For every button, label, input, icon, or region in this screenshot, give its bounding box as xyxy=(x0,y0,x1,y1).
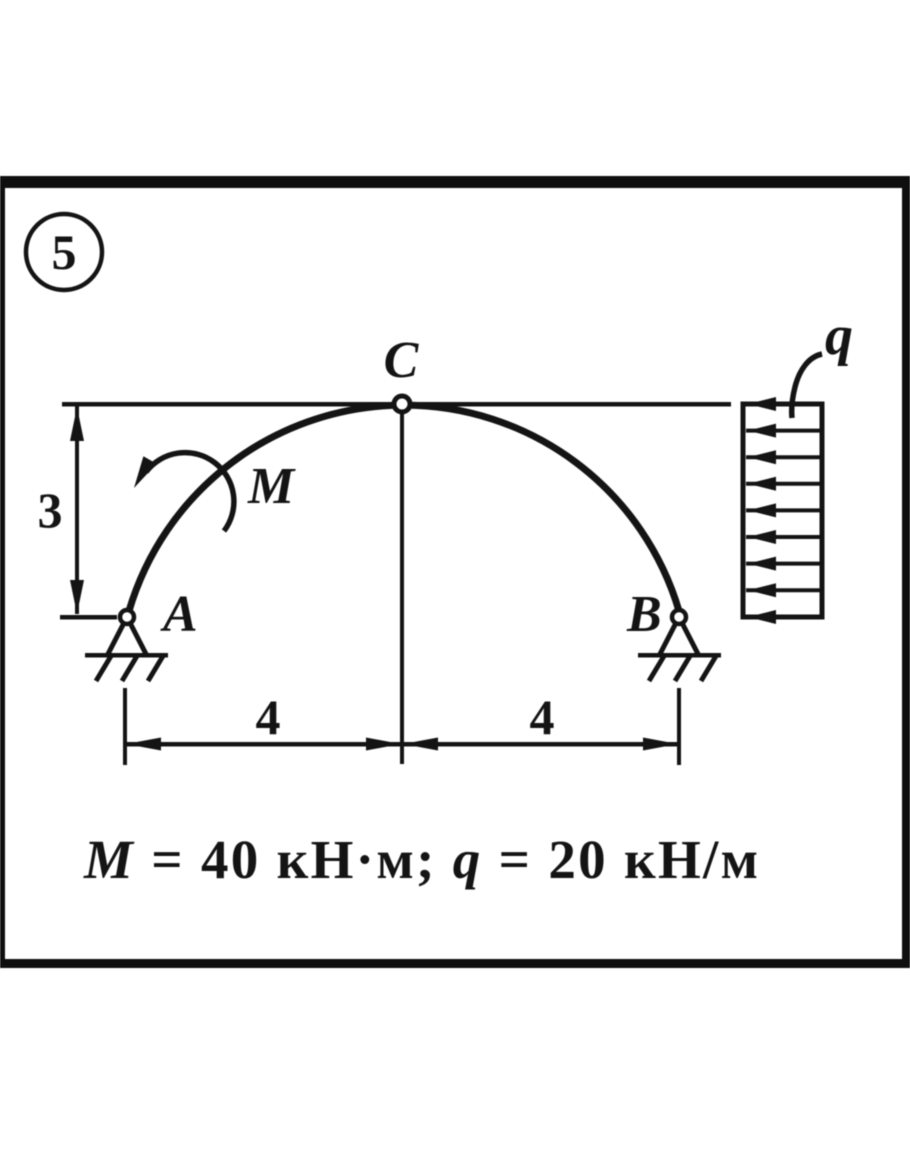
dim arrow center-to-right xyxy=(403,738,438,751)
frame border right xyxy=(902,176,910,968)
frame border bottom xyxy=(0,959,910,968)
load dividing lines and arrows xyxy=(746,397,820,624)
support A pin circle xyxy=(120,610,134,624)
distributed load q box xyxy=(743,404,822,617)
dim arrow right-to-center xyxy=(366,738,401,751)
q leader curve xyxy=(792,354,822,418)
svg-text:M = 40 кН·м; q = 20 кН/м: M = 40 кН·м; q = 20 кН/м xyxy=(83,829,760,890)
support B hatching xyxy=(649,656,716,681)
svg-text:M: M xyxy=(247,458,296,515)
top horizontal line at crown level xyxy=(62,402,731,407)
extension line B xyxy=(677,688,681,765)
svg-text:5: 5 xyxy=(52,224,77,280)
dim3 arrow down xyxy=(70,580,84,614)
short line at support level left xyxy=(60,615,117,620)
hinge C xyxy=(394,396,410,412)
moment arc M xyxy=(146,453,234,531)
support B pin triangle xyxy=(660,617,698,654)
support B pin circle xyxy=(672,610,686,624)
dimension line 4+4 xyxy=(125,742,679,747)
svg-text:3: 3 xyxy=(38,482,63,538)
support A hatching xyxy=(96,656,163,681)
frame border top xyxy=(0,176,910,188)
frame border left xyxy=(0,176,5,968)
svg-text:4: 4 xyxy=(256,689,281,745)
arch ACB xyxy=(129,405,679,611)
circled number 5 xyxy=(26,214,102,290)
dim arrow left outward xyxy=(126,738,161,751)
dim3 arrow up xyxy=(70,407,84,441)
support A pin triangle xyxy=(108,617,146,654)
svg-text:4: 4 xyxy=(530,689,555,745)
svg-text:C: C xyxy=(384,332,420,389)
support A ground line xyxy=(85,653,168,658)
svg-text:q: q xyxy=(825,305,853,367)
support B ground line xyxy=(638,653,721,658)
center vertical line from C xyxy=(400,412,404,764)
moment arrowhead xyxy=(134,456,157,488)
extension line A xyxy=(123,688,127,765)
svg-text:A: A xyxy=(160,586,198,643)
svg-text:B: B xyxy=(626,586,662,643)
dimension 3 vertical line xyxy=(75,406,79,614)
dim arrow right outward xyxy=(643,738,678,751)
